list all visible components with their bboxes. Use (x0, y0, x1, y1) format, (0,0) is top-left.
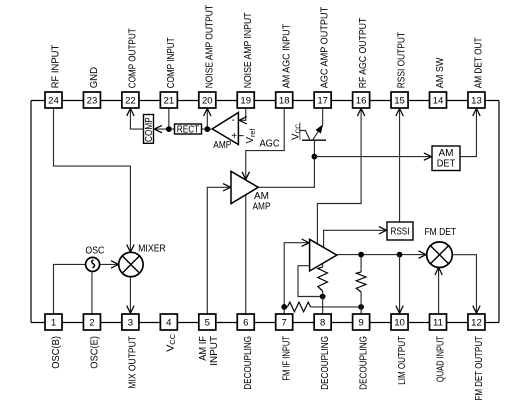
svg-text:16: 16 (356, 96, 367, 107)
wire: pin 1 OSC(B) to oscillator (54, 264, 86, 314)
svg-text:COMP OUTPUT: COMP OUTPUT (128, 28, 139, 88)
pin 17 box (314, 92, 331, 108)
svg-text:+: + (231, 131, 237, 142)
pin 11 box (430, 314, 447, 330)
pin 3 label: MIX OUTPUT (128, 336, 139, 389)
svg-text:19: 19 (240, 96, 251, 107)
wire: AGC node to AM detector (314, 153, 431, 160)
label Vref (245, 129, 257, 144)
label VCC with underline (291, 123, 302, 141)
wire: pin 16 RF AGC to limiter (317, 108, 364, 244)
rectifier RECT block (175, 124, 202, 135)
pin 14 box (430, 92, 447, 108)
svg-text:RSSI OUTPUT: RSSI OUTPUT (397, 32, 408, 88)
transistor Q1 AGC (300, 124, 326, 156)
svg-text:23: 23 (87, 96, 98, 107)
pin 24 box (45, 92, 62, 108)
svg-text:LIM OUTPUT: LIM OUTPUT (397, 336, 408, 385)
svg-text:FM DET: FM DET (424, 227, 456, 238)
pin 15 label: RSSI OUTPUT (397, 32, 408, 88)
wire: pin 2 OSC(E) to oscillator bottom (91, 271, 93, 314)
node: junction below pin 21 (166, 126, 172, 132)
mixer (119, 252, 143, 276)
svg-text:NOISE AMP INPUT: NOISE AMP INPUT (243, 12, 254, 88)
svg-text:1: 1 (51, 318, 56, 329)
pin 6 label: DECOUPLING (243, 336, 254, 390)
svg-text:AM: AM (439, 148, 454, 159)
pin 17 label: AGC AMP OUTPUT (320, 7, 331, 89)
pin 14 label: AM SW (435, 57, 446, 88)
svg-text:20: 20 (202, 96, 213, 107)
pin 1 box (45, 314, 62, 330)
wire: mixer output to pin 3 (127, 277, 134, 313)
resistor R2 limiter to pin 8 (318, 263, 328, 314)
pin 3 box (122, 314, 139, 330)
svg-text:AM SW: AM SW (435, 57, 446, 88)
pin 6 box (237, 314, 254, 330)
wire: comparator output to pin 22 (127, 108, 144, 129)
pin 15 box (391, 92, 408, 108)
wire: limiter feedback loop to pin 8 (298, 266, 323, 297)
svg-text:DECOUPLING: DECOUPLING (358, 336, 369, 390)
pin 19 box (237, 92, 254, 108)
wire: pin 18 AGC net to AM amp (242, 108, 284, 179)
pin 21 box (160, 92, 177, 108)
svg-text:14: 14 (433, 96, 444, 107)
label AM AMP (253, 191, 271, 212)
svg-text:22: 22 (125, 96, 136, 107)
svg-text:OSC(E): OSC(E) (89, 336, 100, 369)
wire: pin 21 comp input net (154, 108, 174, 133)
pin 19 label: NOISE AMP INPUT (243, 12, 254, 88)
svg-text:-: - (232, 115, 235, 126)
svg-text:RF AGC OUTPUT: RF AGC OUTPUT (358, 18, 369, 89)
pin 10 box (391, 314, 408, 330)
pin 12 label: FM DET OUTPUT (474, 336, 485, 401)
svg-text:21: 21 (164, 96, 175, 107)
pin 10 label: LIM OUTPUT (397, 336, 408, 385)
wire: rectifier output to noise amp and pin 20 (202, 108, 213, 129)
svg-text:QUAD INPUT: QUAD INPUT (435, 336, 446, 382)
svg-text:RF INPUT: RF INPUT (51, 45, 62, 89)
wire: AM detector output to pin 13 (460, 108, 480, 156)
pin 8 label: DECOUPLING (320, 336, 331, 390)
node: junction below transistor (312, 154, 318, 160)
pin 18 box (276, 92, 293, 108)
wire: RSSI output to pin 15 (396, 108, 403, 222)
svg-text:RSSI: RSSI (391, 226, 410, 237)
svg-text:DET: DET (437, 158, 456, 169)
IC body outline (31, 101, 499, 323)
pin 1 label: OSC(B) (51, 336, 62, 369)
svg-text:13: 13 (471, 96, 482, 107)
pin 8 box (314, 314, 331, 330)
FM detector mixer (427, 242, 453, 268)
pin 2 box (83, 314, 100, 330)
pin 18 label: AM AGC INPUT (281, 24, 292, 88)
node: junction on pin 9 line (358, 304, 364, 310)
pin 12 box (468, 314, 485, 330)
pin 7 label: FM IF INPUT (282, 336, 293, 381)
svg-text:10: 10 (394, 318, 405, 329)
wire: pin 19 to noise amp inverting input (239, 108, 247, 124)
svg-text:11: 11 (433, 318, 443, 329)
node: junction below pin 20 (204, 126, 210, 132)
node: junction limiter output / pin 16 net (358, 252, 364, 258)
svg-text:9: 9 (358, 318, 363, 329)
wire: pin 24 RF input to mixer (54, 108, 135, 252)
svg-text:12: 12 (471, 318, 482, 329)
resistor R1 between pin 7 and pin 9 nets (284, 302, 361, 312)
pin 13 label: AM DET OUT (474, 37, 485, 88)
label MIXER (138, 244, 166, 255)
RSSI block (387, 222, 413, 240)
svg-text:2: 2 (89, 318, 94, 329)
wire: pin 5 to AM amp input (207, 184, 230, 314)
wire: limiter output down to pin 10 (396, 255, 403, 314)
pin 22 box (122, 92, 139, 108)
pin 9 label: DECOUPLING (358, 336, 369, 390)
pin 4 label: VCC (165, 334, 177, 352)
comparator COMP block (144, 115, 155, 144)
svg-text:DECOUPLING: DECOUPLING (243, 336, 254, 390)
svg-text:COMP INPUT: COMP INPUT (166, 37, 177, 88)
node: junction on pin 7 line (281, 304, 287, 310)
wire: pin 7 FM IF input to limiter (284, 239, 309, 314)
svg-text:NOISE AMP OUTPUT: NOISE AMP OUTPUT (204, 5, 215, 88)
svg-text:MIXER: MIXER (138, 244, 166, 255)
svg-text:AM AGC INPUT: AM AGC INPUT (281, 24, 292, 88)
svg-text:FM IF INPUT: FM IF INPUT (282, 336, 293, 381)
pin 4 box (160, 314, 177, 330)
node: junction on pin 8 line (320, 294, 326, 300)
label AMP (213, 140, 231, 151)
svg-text:4: 4 (166, 318, 172, 329)
label AGC (260, 138, 280, 149)
pin 16 label: RF AGC OUTPUT (358, 18, 369, 89)
pin 5 box (199, 314, 216, 330)
op-amp noise AMP (212, 113, 238, 145)
wire: limiter to RSSI (324, 227, 387, 248)
pin 20 label: NOISE AMP OUTPUT (204, 5, 215, 88)
limiter amplifier (310, 239, 337, 271)
svg-text:AGC AMP OUTPUT: AGC AMP OUTPUT (320, 7, 331, 89)
svg-text:OSC: OSC (85, 246, 104, 257)
wire: pin 17 to AGC transistor (322, 108, 324, 125)
pin 9 box (353, 314, 370, 330)
AM detector block (432, 146, 460, 171)
svg-text:17: 17 (317, 96, 328, 107)
label FM DET (424, 227, 456, 238)
wire: oscillator to mixer (99, 261, 118, 268)
svg-text:18: 18 (279, 96, 290, 107)
wire: FM detector output to pin 12 (453, 255, 481, 314)
svg-text:6: 6 (243, 318, 248, 329)
pin 23 box (83, 92, 100, 108)
svg-text:AMP: AMP (253, 202, 271, 213)
pin 11 label: QUAD INPUT (435, 336, 446, 382)
wire: pin 6 decoupling to AM amp (245, 195, 247, 314)
svg-text:AM DET OUT: AM DET OUT (474, 37, 485, 88)
svg-text:24: 24 (48, 96, 59, 107)
pin 24 label: RF INPUT (51, 45, 62, 89)
svg-text:FM DET OUTPUT: FM DET OUTPUT (474, 336, 485, 401)
oscillator OSC (86, 257, 100, 271)
svg-text:INPUT: INPUT (209, 336, 220, 366)
wire: pin 11 quad input to FM detector (435, 267, 442, 314)
svg-text:15: 15 (394, 96, 405, 107)
svg-text:DECOUPLING: DECOUPLING (320, 336, 331, 390)
svg-text:VCC: VCC (165, 334, 177, 352)
pin 16 box (353, 92, 370, 108)
svg-text:MIX OUTPUT: MIX OUTPUT (128, 336, 139, 389)
svg-text:GND: GND (89, 67, 100, 88)
svg-text:OSC(B): OSC(B) (51, 336, 62, 369)
pin 13 box (468, 92, 485, 108)
svg-text:AM IF: AM IF (198, 336, 209, 361)
pin 22 label: COMP OUTPUT (128, 28, 139, 88)
wire: AM amp output up to AGC node (258, 157, 314, 188)
pin 2 label: OSC(E) (89, 336, 100, 369)
wire: noise amp Vref stub (238, 135, 243, 137)
pin 20 box (199, 92, 216, 108)
svg-text:8: 8 (320, 318, 325, 329)
svg-text:COMP: COMP (144, 117, 155, 142)
resistor R3 limiter output to pin 9 (356, 255, 366, 314)
svg-text:5: 5 (205, 318, 210, 329)
svg-text:AMP: AMP (213, 140, 231, 151)
pin 21 label: COMP INPUT (166, 37, 177, 88)
svg-text:AGC: AGC (260, 138, 280, 149)
svg-text:7: 7 (282, 318, 287, 329)
node: junction limiter output / pin 10 (397, 252, 403, 258)
svg-text:3: 3 (128, 318, 133, 329)
pin 7 box (276, 314, 293, 330)
pin 23 label: GND (89, 67, 100, 88)
wire: limiter output line (337, 251, 427, 258)
svg-text:RECT: RECT (177, 124, 199, 135)
amplifier AM AMP (231, 171, 258, 203)
label OSC (85, 246, 104, 257)
pin 5 label: AM IF INPUT (198, 336, 220, 366)
